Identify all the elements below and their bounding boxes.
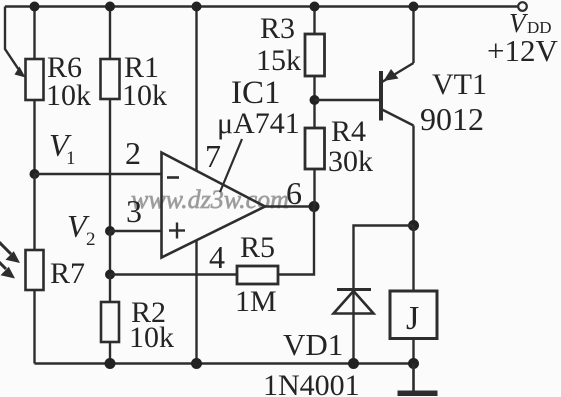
label R4 30k <box>328 115 373 178</box>
junction collector node <box>408 220 419 231</box>
svg-text:1M: 1M <box>235 285 277 318</box>
wire collector node to relay top <box>412 226 414 292</box>
svg-text:VT1: VT1 <box>432 68 487 101</box>
svg-text:www.dz3w.com: www.dz3w.com <box>131 185 289 214</box>
wire V2 down to feedback node <box>109 231 111 275</box>
junction pin4 bottom <box>191 358 202 369</box>
junction base node <box>310 95 320 105</box>
resistor R3 <box>305 7 325 129</box>
op-amp minus input mark <box>167 176 179 179</box>
svg-text:6: 6 <box>286 175 302 211</box>
label R1 10k <box>122 51 167 112</box>
label R6 10k <box>46 51 91 112</box>
junction R6 top <box>30 2 40 12</box>
transistor Q1 collector <box>381 109 414 226</box>
label R2 10k <box>129 296 174 354</box>
wire bottom ground rail <box>35 362 414 364</box>
svg-text:IC1: IC1 <box>231 75 281 111</box>
svg-text:R3: R3 <box>260 12 295 45</box>
svg-text:VD1: VD1 <box>283 327 343 362</box>
photoresistor R7 <box>26 174 44 364</box>
light arrow 2 into R7 <box>0 259 15 279</box>
junction emitter rail <box>409 2 419 12</box>
junction pin7 rail <box>192 2 202 12</box>
op-amp plus input mark <box>169 223 185 239</box>
transistor Q1 base bar <box>379 71 383 121</box>
svg-text:R5: R5 <box>240 231 275 264</box>
resistor R5 <box>237 266 278 284</box>
leader line IC1 to op-amp <box>220 139 242 192</box>
node V2 <box>105 226 115 236</box>
svg-text:4: 4 <box>209 239 225 275</box>
svg-text:μA741: μA741 <box>217 107 300 140</box>
svg-text:2: 2 <box>125 135 141 171</box>
wire feedback node to R5 left <box>110 273 237 275</box>
svg-text:10k: 10k <box>46 79 91 112</box>
svg-text:15k: 15k <box>256 44 301 77</box>
wire top supply rail <box>5 5 518 7</box>
terminal VDD <box>518 2 527 11</box>
svg-text:J: J <box>406 300 419 337</box>
junction relay bottom <box>408 358 419 369</box>
svg-text:7: 7 <box>205 138 221 174</box>
wire op-amp output pin 6 <box>265 205 314 207</box>
svg-text:+12V: +12V <box>487 33 558 68</box>
wire pin 4 to ground rail <box>195 241 197 364</box>
resistor R1 <box>101 7 120 232</box>
junction diode bottom <box>348 358 359 369</box>
relay coil J <box>390 291 437 364</box>
resistor R6 <box>26 7 44 175</box>
resistor R4 <box>305 128 325 207</box>
wire pin 7 supply <box>195 7 197 172</box>
svg-text:R7: R7 <box>50 257 85 290</box>
svg-text:9012: 9012 <box>420 101 484 137</box>
junction R2 bottom <box>105 358 116 369</box>
wire V2 to pin 3 <box>110 230 162 232</box>
svg-text:1: 1 <box>66 148 76 169</box>
wire V1 to pin 2 <box>35 173 162 175</box>
svg-text:30k: 30k <box>328 145 373 178</box>
junction R1 top <box>105 2 115 12</box>
ground <box>398 364 438 397</box>
label VT1 9012 <box>420 68 487 137</box>
node V1 <box>30 169 40 179</box>
label V2 <box>67 208 96 250</box>
label VDD <box>509 8 552 38</box>
svg-text:1N4001: 1N4001 <box>263 369 360 397</box>
diode VD1 <box>334 290 374 364</box>
label V1 <box>49 127 76 169</box>
junction output node <box>309 201 320 212</box>
wire output node down to R5 right <box>278 207 314 275</box>
junction R3 top <box>310 2 320 12</box>
label R3 15k <box>256 12 301 77</box>
light arrow 1 into R7 <box>0 241 20 263</box>
svg-text:10k: 10k <box>122 79 167 112</box>
wire collector node to diode top <box>354 226 414 290</box>
resistor R2 <box>101 275 119 364</box>
transistor Q1 emitter with arrow <box>382 7 414 83</box>
svg-text:3: 3 <box>126 193 142 229</box>
junction feedback node <box>105 270 115 280</box>
op-amp U1 triangle <box>162 153 266 258</box>
label R5 1M <box>235 231 277 318</box>
svg-text:10k: 10k <box>129 321 174 354</box>
wire base node to transistor base <box>315 99 382 101</box>
wire potentiometer wiper arm R6 <box>5 7 26 78</box>
svg-text:R4: R4 <box>331 115 366 148</box>
svg-text:2: 2 <box>86 229 96 250</box>
